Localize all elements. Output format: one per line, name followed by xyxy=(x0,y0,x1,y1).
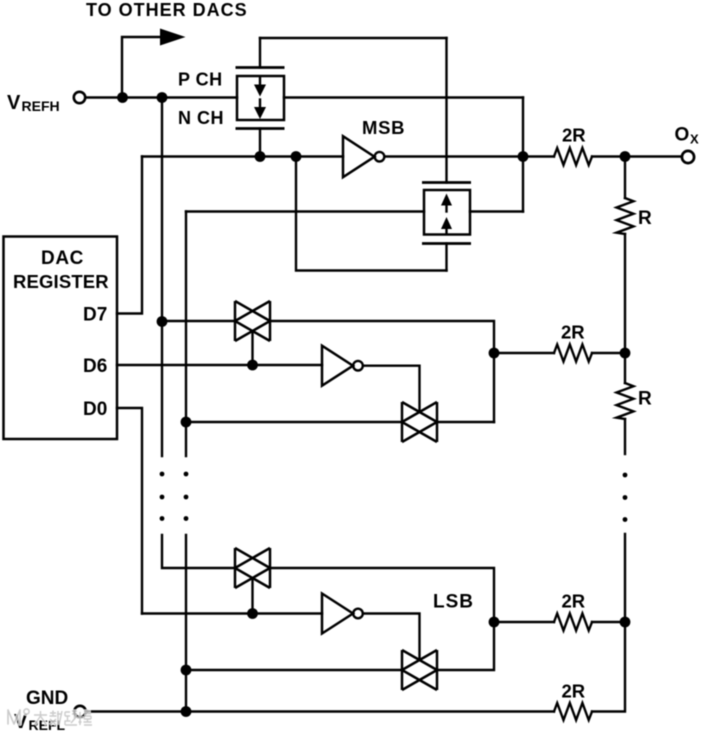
svg-text:2R: 2R xyxy=(561,322,585,343)
analog switch S2 (D6 complement) xyxy=(402,402,437,442)
continuation dots VREFL rail xyxy=(184,472,189,521)
continuation dots VREFH rail xyxy=(160,472,165,521)
svg-text:N CH: N CH xyxy=(178,108,224,128)
inverter A2 (D6) xyxy=(322,346,363,386)
wire A2 output to S2 control xyxy=(363,366,420,412)
wire VREFL rail to U2 left xyxy=(186,210,424,212)
wire D6 line to inverter A2 xyxy=(117,364,322,366)
arrowhead to other DACs xyxy=(160,29,186,46)
svg-text:P CH: P CH xyxy=(178,70,223,90)
wire U1 output to right xyxy=(284,96,523,98)
wire VREFH to pass gate U1 xyxy=(86,96,238,98)
wire Ox node down to R1 xyxy=(624,157,626,199)
svg-text:REFH: REFH xyxy=(22,98,60,114)
svg-text:X: X xyxy=(690,132,699,147)
wire VREFH rail upper xyxy=(161,98,163,457)
wire A1 output to 2R xyxy=(385,155,555,157)
junction dot VREFL rail bottom xyxy=(181,706,192,717)
junction dot VREFL tap D0 xyxy=(181,665,192,676)
continuation dots ladder xyxy=(623,473,628,522)
svg-text:REGISTER: REGISTER xyxy=(13,271,109,292)
wire VREFL tap to S4 xyxy=(186,669,402,671)
terminal VREFH xyxy=(74,92,85,103)
junction dot VREFH/arrow xyxy=(117,92,128,103)
svg-text:2R: 2R xyxy=(562,591,586,612)
watermark text xyxy=(34,710,92,726)
resistor 2R (MSB) xyxy=(554,148,592,165)
wire R2 down xyxy=(624,419,626,454)
junction dot LSB 2R node xyxy=(489,617,500,628)
wire S3 output right xyxy=(270,568,494,622)
wire D7 pin stub up to MSB line xyxy=(117,157,142,314)
wire D0 line to inverter A3 xyxy=(142,612,322,614)
resistor R1 xyxy=(617,198,634,234)
svg-text:D6: D6 xyxy=(83,356,107,377)
inverter A3 (LSB) xyxy=(322,594,363,634)
resistor 2R (terminator) xyxy=(554,703,592,720)
wire node2 to R2 xyxy=(624,353,626,383)
wire S1 control stem xyxy=(251,331,253,365)
svg-text:R: R xyxy=(638,208,652,229)
svg-text:MSB: MSB xyxy=(362,117,405,138)
wire U1 bottom gate stem xyxy=(259,129,261,157)
svg-text:O: O xyxy=(675,125,690,146)
DAC register box xyxy=(4,237,118,440)
svg-text:R: R xyxy=(638,389,652,410)
junction dot VREFH tap D7 xyxy=(157,316,168,327)
wire node to 2R (D6) xyxy=(494,352,554,354)
resistor 2R (LSB) xyxy=(554,614,592,631)
wire VREFH rail lower xyxy=(162,535,235,568)
wire VREFL bottom line xyxy=(86,710,554,712)
wire 2R to ladder xyxy=(592,352,625,354)
wire gate link top xyxy=(260,37,447,39)
wire terminator to ladder xyxy=(592,622,625,712)
wire VREFL rail lower xyxy=(185,535,187,712)
wire VREFH tap to switch S1 xyxy=(162,320,235,322)
wire 2R to ladder xyxy=(592,621,625,623)
wire node to 2R (LSB) xyxy=(494,621,554,623)
wire D0 pin stub down xyxy=(117,408,142,614)
junction dot Ox node xyxy=(620,151,631,162)
wire output column x523 xyxy=(522,98,524,212)
svg-text:2R: 2R xyxy=(562,125,586,146)
svg-text:TO OTHER DACS: TO OTHER DACS xyxy=(86,0,248,20)
pass gate U1 (P/N CMOS switch) xyxy=(236,68,285,129)
wire S3 control stem xyxy=(251,578,253,614)
wire R1 to node2 xyxy=(624,234,626,353)
wire branch down from MSB line xyxy=(296,157,447,271)
analog switch S3 (D0) xyxy=(235,548,270,588)
analog switch S4 (D0 complement) xyxy=(402,650,437,690)
pass gate U2 (N switch) xyxy=(422,183,471,244)
svg-text:DAC: DAC xyxy=(41,248,84,269)
junction dot VREFL tap D6 xyxy=(181,417,192,428)
terminal Ox xyxy=(682,151,694,163)
terminal VREFL xyxy=(74,706,85,717)
junction dot ladder node2 xyxy=(620,348,631,359)
wire S2 output right up to 2R node xyxy=(437,421,494,423)
svg-text:GND: GND xyxy=(26,688,68,709)
inverter A1 (MSB) xyxy=(343,136,384,177)
junction dot U1 gate on MSB line xyxy=(255,151,266,162)
watermark logo xyxy=(8,709,29,724)
svg-text:V: V xyxy=(7,92,21,114)
resistor R2 xyxy=(617,383,634,419)
junction dot S3 control on D0 line xyxy=(247,608,258,619)
wire U2 bottom gate stem xyxy=(445,244,447,271)
wire D7/MSB input line xyxy=(142,155,343,157)
wire ladder lower xyxy=(624,534,626,622)
wire U2 right to output column xyxy=(470,210,523,212)
wire VREFL tap to S2 xyxy=(186,421,402,423)
junction dot MSB line branch xyxy=(291,151,302,162)
junction dot VREFH rail xyxy=(157,92,168,103)
analog switch S1 (D7) xyxy=(235,301,270,341)
resistor 2R (D6) xyxy=(554,345,592,362)
junction dot S1 control on D6 line xyxy=(247,360,258,371)
wire arrow riser from VREFH node xyxy=(122,37,161,98)
wire 2R to Ox xyxy=(592,155,682,157)
junction dot D6 2R node xyxy=(489,348,500,359)
wire U1 top gate stem xyxy=(259,38,261,68)
svg-text:2R: 2R xyxy=(562,681,586,702)
wire S4 output right xyxy=(437,622,494,670)
junction dot pass-gate outputs to MSB 2R xyxy=(518,151,529,162)
wire U2 top gate stem xyxy=(445,38,447,183)
svg-text:D0: D0 xyxy=(83,399,107,420)
wire VREFL rail upper xyxy=(185,212,187,457)
wire S1 output right xyxy=(270,321,494,422)
svg-text:D7: D7 xyxy=(83,305,107,326)
wire A3 output to S4 control xyxy=(363,614,420,661)
junction dot ladder node3 xyxy=(620,617,631,628)
svg-text:LSB: LSB xyxy=(433,592,474,613)
